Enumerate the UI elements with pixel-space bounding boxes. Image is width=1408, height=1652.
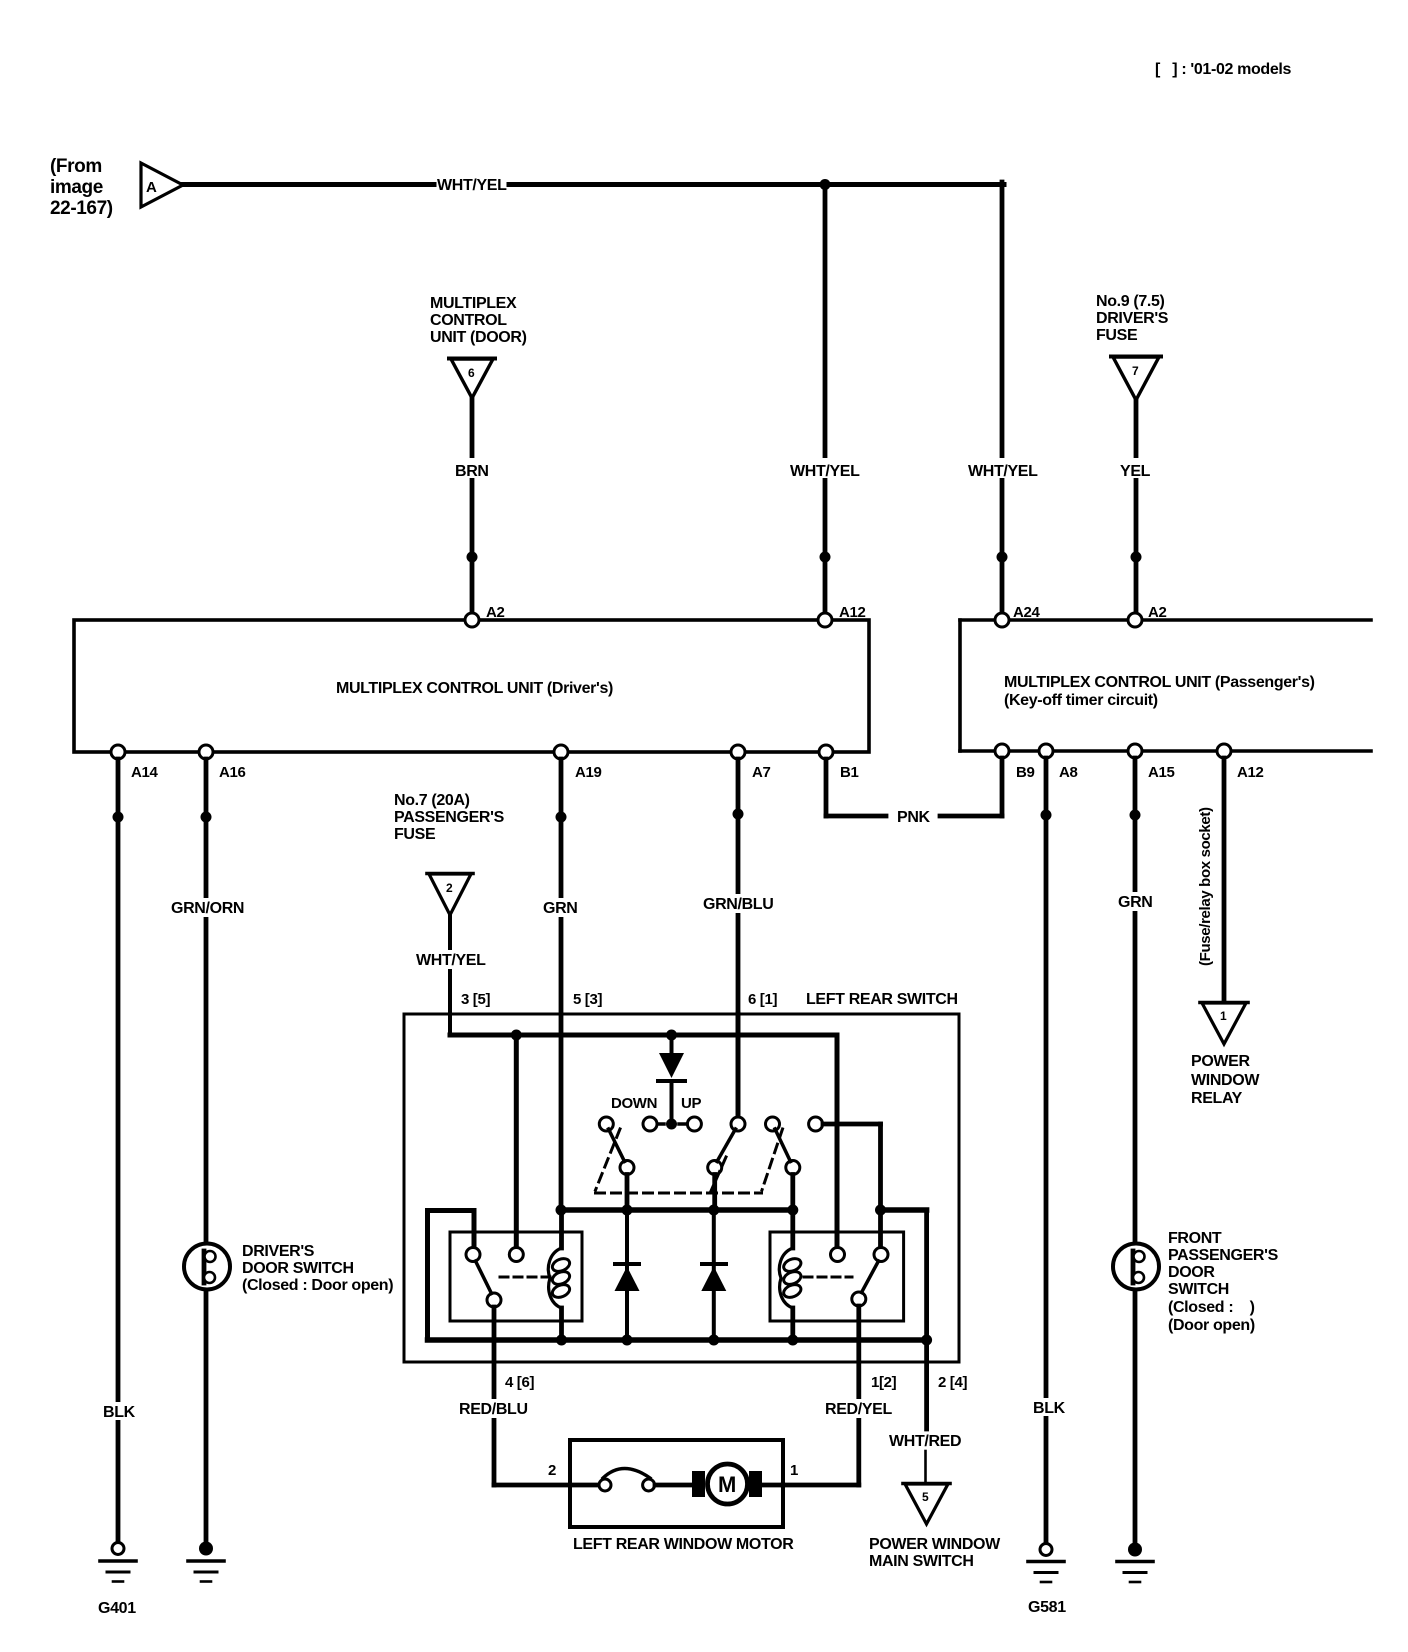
- diode D2 (pointing up): [712, 1210, 716, 1340]
- svg-text:3 [5]: 3 [5]: [461, 991, 490, 1008]
- relay K2 left contact: [831, 1248, 845, 1262]
- breaker contact circles: [599, 1479, 611, 1491]
- svg-text:A15: A15: [1148, 764, 1174, 781]
- pin A12 (passenger's bottom): [1217, 744, 1231, 758]
- wire 2[4] vertical: [924, 1210, 929, 1340]
- box LEFT REAR SWITCH: [404, 1014, 959, 1362]
- pin A14: [111, 745, 125, 759]
- wire WHT/RED (pin 2[4] to main switch): [924, 1340, 929, 1429]
- svg-text:B1: B1: [840, 764, 858, 781]
- wire GRN (A19 to left rear switch 5[3]): [559, 759, 564, 1210]
- svg-text:WINDOW: WINDOW: [1191, 1072, 1260, 1089]
- wire BLK (A14 to G401): [116, 759, 121, 1542]
- wire 6[1] into switch: [736, 1014, 741, 1117]
- node junction diode feed: [666, 1030, 677, 1041]
- note '01-02 models: [1155, 61, 1292, 78]
- motor brush right: [749, 1471, 762, 1497]
- wire GRN/ORN (A16 to ground): [204, 759, 209, 1244]
- switch S2 lower contact: [708, 1161, 722, 1175]
- label DOWN: [611, 1095, 657, 1112]
- svg-text:LEFT REAR SWITCH: LEFT REAR SWITCH: [806, 991, 958, 1008]
- svg-text:G401: G401: [98, 1600, 136, 1617]
- connector triangle 2 (passenger's fuse): [427, 874, 473, 916]
- pin B1: [819, 745, 833, 759]
- svg-text:A24: A24: [1013, 604, 1040, 621]
- svg-text:RELAY: RELAY: [1191, 1090, 1243, 1107]
- svg-text:DOOR: DOOR: [1168, 1264, 1215, 1281]
- svg-text:22-167): 22-167): [50, 198, 113, 219]
- label POWER WINDOW MAIN SWITCH: [869, 1536, 1001, 1570]
- pin A12 (driver's unit top): [818, 613, 832, 627]
- relay K2 (right) box: [770, 1232, 904, 1321]
- svg-text:(Fuse/relay box socket): (Fuse/relay box socket): [1197, 807, 1214, 966]
- switch S2 contact circle: [731, 1117, 745, 1131]
- connector arrow A: [141, 163, 183, 207]
- junction node on WHT/YEL: [820, 179, 831, 190]
- svg-text:PASSENGER'S: PASSENGER'S: [1168, 1247, 1279, 1264]
- wire right relay right contact feed: [878, 1210, 883, 1248]
- label MULTIPLEX CONTROL UNIT (DOOR): [430, 295, 527, 346]
- switch S2 blade: [717, 1129, 736, 1162]
- svg-text:A12: A12: [1237, 764, 1263, 781]
- svg-text:BLK: BLK: [103, 1404, 136, 1421]
- connector triangle 5 (power window main switch): [903, 1484, 950, 1525]
- svg-text:G581: G581: [1028, 1599, 1066, 1616]
- switch S1 blade: [609, 1129, 625, 1162]
- wire RED/BLU (pin 4[6] to motor): [492, 1307, 497, 1485]
- wire WHT/YEL horizontal from A: [183, 182, 434, 187]
- wire YEL: [1134, 400, 1139, 620]
- diode D1 (pointing up): [625, 1210, 629, 1340]
- svg-text:A8: A8: [1059, 764, 1077, 781]
- wire PNK (B1 to B9): [824, 759, 829, 816]
- svg-text:BLK: BLK: [1033, 1400, 1066, 1417]
- label (Fuse/relay box socket) vertical: [1197, 807, 1214, 966]
- bus upper (coil/diode top rail): [561, 1207, 793, 1213]
- svg-text:A: A: [146, 179, 157, 196]
- relay K2 coil: [790, 1210, 795, 1248]
- svg-text:MAIN SWITCH: MAIN SWITCH: [869, 1553, 974, 1570]
- relay K1 left contact: [466, 1248, 480, 1262]
- svg-text:A7: A7: [752, 764, 770, 781]
- pin B9: [995, 744, 1009, 758]
- box MULTIPLEX CONTROL UNIT (Driver's): [74, 620, 869, 752]
- connector triangle 7: [1111, 357, 1161, 401]
- svg-text:MULTIPLEX CONTROL UNIT (Driver: MULTIPLEX CONTROL UNIT (Driver's): [336, 680, 613, 697]
- wire BLK (A8 to G581): [1044, 758, 1049, 1544]
- diode D3 (switch top, pointing down): [670, 1035, 674, 1055]
- motor brush left: [692, 1471, 705, 1497]
- relay K1 middle contact: [509, 1248, 523, 1262]
- svg-text:[ ] : '01-02 models: [ ] : '01-02 models: [1155, 61, 1292, 78]
- ground (driver's door switch): [199, 1542, 213, 1556]
- svg-text:FUSE: FUSE: [394, 826, 436, 843]
- svg-text:MULTIPLEX CONTROL UNIT (Passen: MULTIPLEX CONTROL UNIT (Passenger's): [1004, 674, 1315, 691]
- pin label 5[3]: [573, 991, 602, 1008]
- svg-text:GRN: GRN: [543, 900, 578, 917]
- bus lower (ground rail): [428, 1337, 927, 1343]
- svg-text:1[2]: 1[2]: [871, 1374, 897, 1391]
- node junction 3[5]/middle-contact feed: [511, 1030, 522, 1041]
- switch S3 contact circles: [766, 1117, 780, 1131]
- pin A2 (driver's unit top): [465, 613, 479, 627]
- svg-text:POWER WINDOW: POWER WINDOW: [869, 1536, 1001, 1553]
- pin label 3[5]: [461, 991, 490, 1008]
- label WHT/YEL (top wire): [437, 177, 507, 194]
- relay K2 right contact: [874, 1248, 888, 1262]
- mechanical linkage (dashed): [596, 1129, 783, 1193]
- relay K1 (left) box: [450, 1232, 582, 1321]
- svg-text:WHT/YEL: WHT/YEL: [968, 463, 1038, 480]
- pin A2 (passenger's unit top): [1128, 613, 1142, 627]
- relay K2 lower contact: [852, 1292, 866, 1306]
- wire A12 to power window relay: [1222, 758, 1227, 1012]
- label driver's door switch: [242, 1243, 393, 1294]
- relay K1 coil: [559, 1210, 564, 1248]
- svg-text:FRONT: FRONT: [1168, 1230, 1222, 1247]
- svg-text:(Closed : Door open): (Closed : Door open): [242, 1277, 393, 1294]
- svg-text:PASSENGER'S: PASSENGER'S: [394, 809, 505, 826]
- svg-text:No.9 (7.5): No.9 (7.5): [1096, 293, 1165, 310]
- relay K2 blade: [862, 1261, 879, 1293]
- wire WHT/YEL vertical to A12: [823, 185, 828, 621]
- svg-text:RED/BLU: RED/BLU: [459, 1401, 528, 1418]
- breaker arc: [603, 1469, 650, 1479]
- svg-text:LEFT REAR WINDOW MOTOR: LEFT REAR WINDOW MOTOR: [573, 1536, 794, 1553]
- svg-text:5 [3]: 5 [3]: [573, 991, 602, 1008]
- wire S3 lower stub: [790, 1175, 795, 1211]
- pin A19: [554, 745, 568, 759]
- wire WHT/YEL feed bus inside switch: [450, 1033, 837, 1038]
- wire BRN: [470, 398, 475, 620]
- svg-text:1: 1: [790, 1462, 798, 1479]
- front passenger's door switch: [1113, 1244, 1159, 1290]
- box LEFT REAR WINDOW MOTOR: [570, 1440, 783, 1527]
- svg-text:DOOR SWITCH: DOOR SWITCH: [242, 1260, 354, 1277]
- switch S1 contact circles: [599, 1117, 613, 1131]
- pin A8: [1039, 744, 1053, 758]
- wire RED/YEL (pin 1[2] to motor): [856, 1306, 861, 1485]
- svg-text:UNIT (DOOR): UNIT (DOOR): [430, 329, 527, 346]
- svg-text:7: 7: [1132, 364, 1139, 378]
- switch S3 blade: [775, 1129, 791, 1162]
- motor M: [708, 1464, 748, 1504]
- svg-text:DRIVER'S: DRIVER'S: [1096, 310, 1169, 327]
- svg-text:SWITCH: SWITCH: [1168, 1281, 1229, 1298]
- svg-text:4 [6]: 4 [6]: [505, 1374, 534, 1391]
- pin A15: [1128, 744, 1142, 758]
- svg-text:WHT/YEL: WHT/YEL: [437, 177, 507, 194]
- svg-text:No.7 (20A): No.7 (20A): [394, 792, 470, 809]
- svg-text:MULTIPLEX: MULTIPLEX: [430, 295, 517, 312]
- svg-text:A12: A12: [839, 604, 865, 621]
- ground G401: [112, 1543, 124, 1555]
- pin 2 label: [548, 1462, 556, 1479]
- svg-text:A16: A16: [219, 764, 245, 781]
- label UP: [681, 1095, 701, 1112]
- svg-text:2: 2: [446, 881, 453, 895]
- wire S2 lower stub: [712, 1175, 717, 1211]
- bus upper right segment: [881, 1207, 927, 1213]
- svg-text:(From: (From: [50, 156, 102, 177]
- note (From image 22-167): [50, 156, 113, 219]
- pin label 6[1]: [748, 991, 777, 1008]
- wire GRN (A15 to front passenger door switch): [1133, 758, 1138, 1244]
- svg-text:WHT/YEL: WHT/YEL: [416, 952, 486, 969]
- ground (front passenger's door switch): [1128, 1543, 1142, 1557]
- svg-text:DRIVER'S: DRIVER'S: [242, 1243, 315, 1260]
- svg-text:5: 5: [922, 1490, 929, 1504]
- wire WHT/YEL vertical to A24: [1000, 182, 1005, 620]
- label POWER WINDOW RELAY: [1191, 1053, 1260, 1107]
- driver's door switch: [184, 1244, 230, 1290]
- svg-text:2: 2: [548, 1462, 556, 1479]
- svg-text:A2: A2: [1148, 604, 1166, 621]
- svg-text:POWER: POWER: [1191, 1053, 1250, 1070]
- wire breaker to motor: [655, 1483, 692, 1488]
- svg-text:(Door open): (Door open): [1168, 1317, 1255, 1334]
- svg-text:(Closed : ): (Closed : ): [1168, 1299, 1255, 1316]
- svg-text:WHT/RED: WHT/RED: [889, 1433, 961, 1450]
- ground G581: [1040, 1544, 1052, 1556]
- svg-text:A19: A19: [575, 764, 601, 781]
- label front passenger's door switch: [1168, 1230, 1279, 1334]
- label No.7 (20A) PASSENGER'S FUSE: [394, 792, 505, 843]
- svg-text:M: M: [718, 1472, 736, 1497]
- wire motor to pin 1: [762, 1483, 783, 1488]
- svg-text:FUSE: FUSE: [1096, 327, 1138, 344]
- svg-text:BRN: BRN: [455, 463, 489, 480]
- svg-text:1: 1: [1220, 1009, 1227, 1023]
- connector triangle 1 (power window relay): [1200, 1003, 1248, 1045]
- svg-text:YEL: YEL: [1120, 463, 1151, 480]
- wire to left relay middle contact: [514, 1035, 519, 1248]
- svg-text:6 [1]: 6 [1]: [748, 991, 777, 1008]
- svg-text:2 [4]: 2 [4]: [938, 1374, 967, 1391]
- relay K1 lower contact: [487, 1293, 501, 1307]
- left relay left-contact feed loop: [425, 1211, 430, 1341]
- pin 1 label: [790, 1462, 798, 1479]
- svg-text:(Key-off timer circuit): (Key-off timer circuit): [1004, 692, 1158, 709]
- svg-text:image: image: [50, 177, 103, 198]
- svg-text:DOWN: DOWN: [611, 1095, 657, 1112]
- pin A7: [731, 745, 745, 759]
- svg-text:GRN: GRN: [1118, 894, 1153, 911]
- svg-text:UP: UP: [681, 1095, 701, 1112]
- svg-text:GRN/ORN: GRN/ORN: [171, 900, 244, 917]
- switch S3 lower contact: [786, 1161, 800, 1175]
- switch S1 lower contact: [620, 1161, 634, 1175]
- relay K1 dashed link: [500, 1276, 551, 1279]
- relay K1 blade: [476, 1261, 492, 1294]
- svg-text:A2: A2: [486, 604, 504, 621]
- connector triangle 6: [449, 359, 495, 399]
- wire WHT/YEL (fuse 2 into switch pin 3[5]): [448, 915, 452, 1035]
- pin A16: [199, 745, 213, 759]
- svg-text:A14: A14: [131, 764, 158, 781]
- box MULTIPLEX CONTROL UNIT (Passenger's): [960, 620, 1371, 751]
- svg-text:CONTROL: CONTROL: [430, 312, 507, 329]
- node switch common: [666, 1119, 677, 1130]
- wire GRN/BLU (A7 to left rear switch 6[1]): [736, 759, 741, 1117]
- svg-text:PNK: PNK: [897, 809, 931, 826]
- wire to right relay left contact: [835, 1035, 840, 1248]
- svg-text:B9: B9: [1016, 764, 1034, 781]
- svg-text:WHT/YEL: WHT/YEL: [790, 463, 860, 480]
- wire S3 right contact to relay feed: [823, 1122, 881, 1127]
- pin A24 (passenger's unit top): [995, 613, 1009, 627]
- svg-text:RED/YEL: RED/YEL: [825, 1401, 892, 1418]
- svg-text:6: 6: [468, 366, 475, 380]
- wire S1 lower stub: [625, 1175, 630, 1211]
- label No.9 (7.5) DRIVER'S FUSE: [1096, 293, 1169, 344]
- relay K2 dashed link: [804, 1276, 852, 1279]
- svg-text:GRN/BLU: GRN/BLU: [703, 896, 773, 913]
